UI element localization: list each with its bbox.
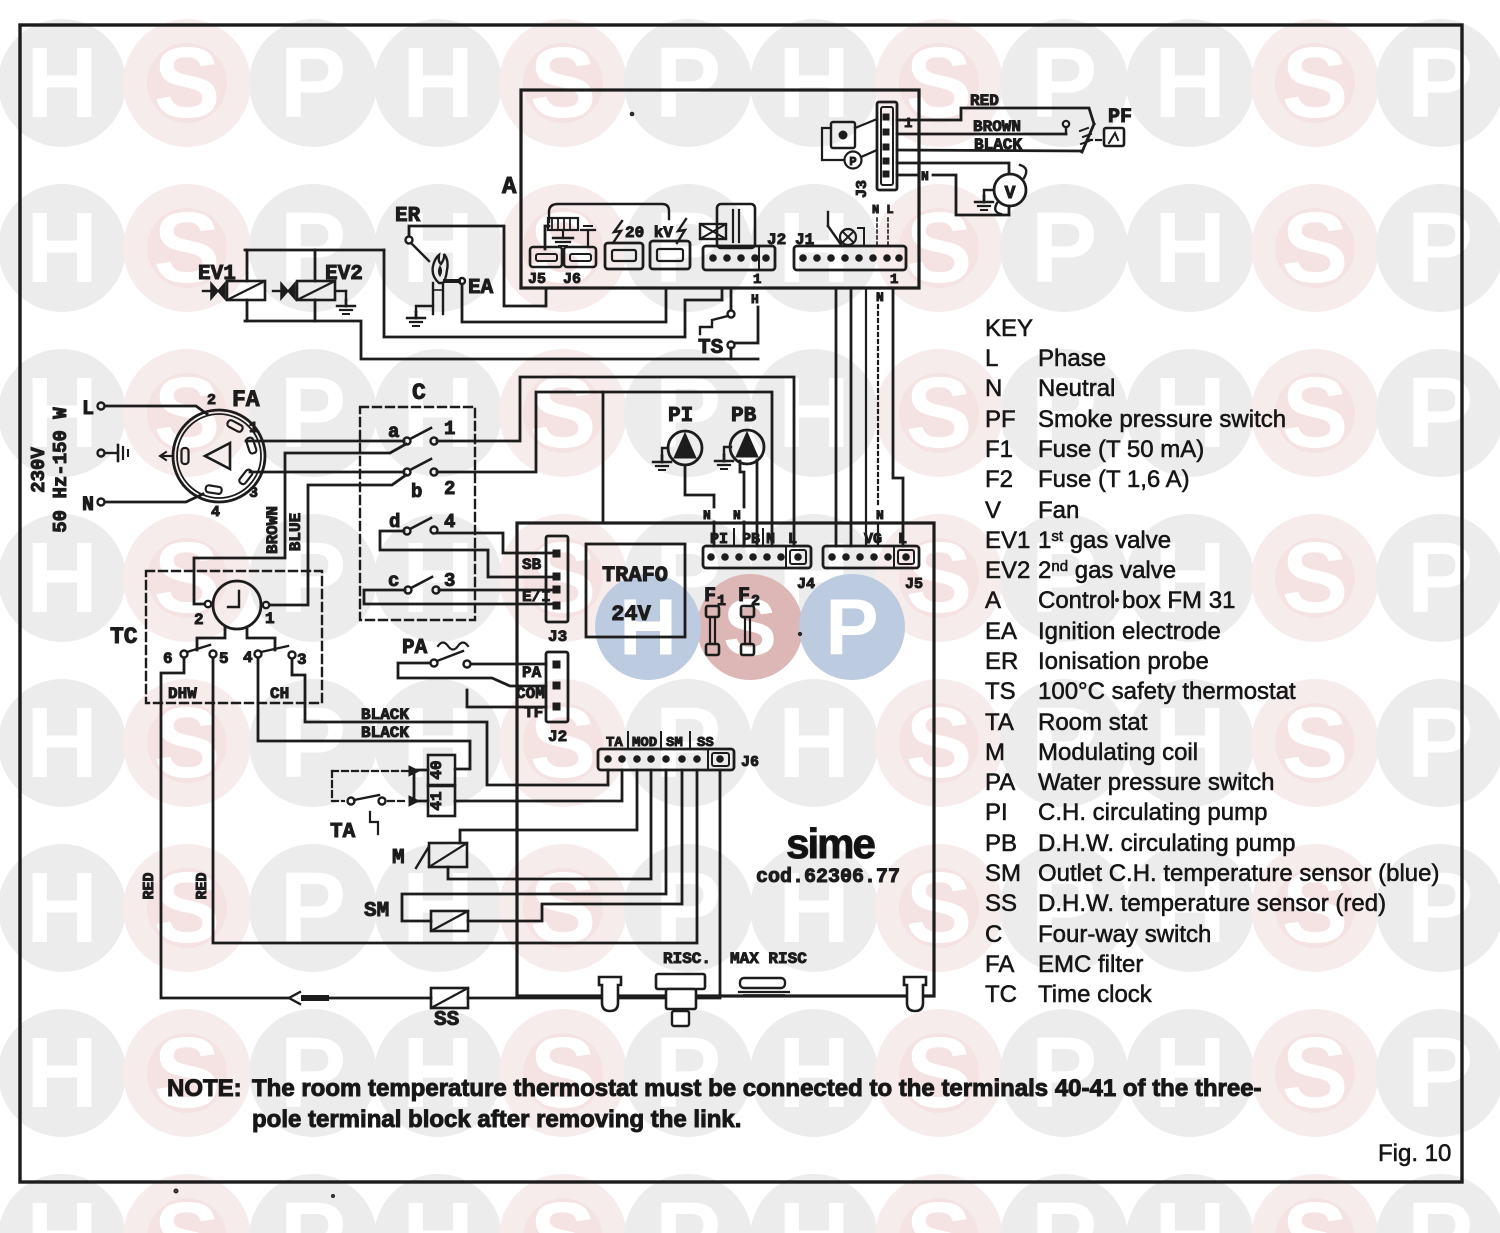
- wire PA common to COM: [398, 663, 546, 686]
- svg-text:BLACK: BLACK: [361, 706, 409, 724]
- svg-text:SS: SS: [985, 890, 1017, 917]
- svg-text:S: S: [154, 27, 221, 139]
- modulating coil M: [392, 843, 467, 870]
- svg-text:H: H: [778, 357, 850, 469]
- svg-text:TS: TS: [985, 678, 1016, 705]
- svg-text:6: 6: [163, 650, 173, 668]
- svg-text:S: S: [1282, 1017, 1349, 1129]
- svg-text:sime: sime: [786, 820, 874, 867]
- svg-text:4: 4: [211, 504, 220, 521]
- svg-text:S: S: [530, 357, 597, 469]
- svg-text:TC: TC: [110, 624, 138, 650]
- svg-text:20 kV: 20 kV: [625, 224, 673, 242]
- svg-text:PI: PI: [668, 405, 693, 428]
- svg-text:MAX RISC: MAX RISC: [730, 950, 807, 968]
- svg-text:V: V: [1005, 184, 1016, 204]
- wire RED 1 (TC6): [161, 658, 288, 998]
- svg-text:RED: RED: [194, 872, 211, 899]
- svg-text:EV1: EV1: [198, 263, 236, 286]
- svg-text:H: H: [778, 687, 850, 799]
- svg-text:J5: J5: [528, 271, 546, 288]
- wire contact 2 to J4 N: [437, 392, 772, 546]
- svg-text:RISC.: RISC.: [663, 950, 711, 968]
- svg-text:S: S: [906, 852, 973, 964]
- svg-text:S: S: [906, 687, 973, 799]
- svg-text:CH: CH: [270, 685, 289, 703]
- svg-text:S: S: [530, 852, 597, 964]
- svg-text:ER: ER: [985, 648, 1018, 675]
- svg-text:H: H: [1154, 27, 1226, 139]
- svg-text:PF: PF: [985, 406, 1016, 433]
- svg-text:J5: J5: [905, 576, 923, 593]
- svg-text:VG: VG: [864, 531, 882, 548]
- svg-text:50 Hz-150 W: 50 Hz-150 W: [50, 407, 72, 533]
- water pressure switch PA: [402, 637, 471, 668]
- svg-text:H: H: [402, 27, 474, 139]
- svg-text:TRAFO: TRAFO: [602, 563, 668, 588]
- svg-text:S: S: [1282, 522, 1349, 634]
- svg-text:pole terminal block after remo: pole terminal block after removing the l…: [252, 1106, 741, 1133]
- wire bus to J5 board: [835, 289, 838, 546]
- svg-text:H: H: [402, 852, 474, 964]
- fuse F2: [738, 585, 760, 655]
- svg-text:a: a: [388, 421, 399, 443]
- svg-text:2: 2: [751, 593, 760, 610]
- svg-text:F1: F1: [985, 436, 1013, 463]
- switch contact a/1: [388, 418, 455, 445]
- svg-text:C: C: [985, 921, 1002, 948]
- ionisation probe ER: [395, 205, 429, 261]
- relay above J1: [828, 212, 864, 246]
- wire TF: [467, 690, 546, 707]
- svg-text:L: L: [898, 531, 907, 548]
- wire BLACK to PF: [897, 150, 1082, 151]
- terminal ground: [98, 450, 105, 457]
- svg-text:H: H: [778, 1182, 850, 1233]
- svg-text:3: 3: [249, 485, 258, 502]
- switch contacts 6-5 4-3: [163, 645, 307, 669]
- svg-text:A: A: [985, 587, 1001, 614]
- svg-text:A: A: [502, 174, 517, 201]
- connector plug arrow: [289, 992, 300, 1004]
- svg-text:BROWN: BROWN: [973, 118, 1021, 136]
- svg-text:S: S: [1282, 1182, 1349, 1233]
- svg-text:Modulating coil: Modulating coil: [1038, 739, 1198, 766]
- wire 41 to connector: [455, 770, 622, 801]
- terminal block 41: [428, 785, 455, 816]
- room stat TA: [330, 766, 419, 844]
- wire BLACK 2 (TC4 to 41): [258, 658, 470, 769]
- fuse F1: [704, 585, 726, 655]
- wire TS top: [730, 289, 733, 310]
- svg-text:J4: J4: [797, 576, 815, 593]
- svg-text:Time clock: Time clock: [1038, 981, 1153, 1008]
- mounting foot left: [599, 977, 621, 1011]
- svg-text:D.H.W. temperature sensor (red: D.H.W. temperature sensor (red): [1038, 890, 1386, 917]
- svg-text:S: S: [154, 1182, 221, 1233]
- svg-text:P: P: [825, 583, 878, 672]
- svg-text:40: 40: [428, 760, 446, 779]
- wire stub to board top: [602, 392, 605, 523]
- svg-text:S: S: [154, 1017, 221, 1129]
- svg-text:BLACK: BLACK: [361, 724, 409, 742]
- svg-text:EA: EA: [985, 618, 1017, 645]
- svg-text:Control box FM 31: Control box FM 31: [1038, 587, 1235, 614]
- svg-text:J6: J6: [741, 754, 759, 771]
- svg-text:H: H: [619, 583, 677, 672]
- svg-text:P: P: [1031, 1182, 1098, 1233]
- svg-text:3: 3: [297, 651, 307, 669]
- svg-text:F: F: [738, 585, 750, 608]
- wire FA3 to contact b: [250, 471, 404, 474]
- svg-text:M: M: [392, 847, 405, 870]
- svg-text:N: N: [876, 290, 884, 305]
- svg-text:P: P: [280, 27, 347, 139]
- svg-text:Four-way switch: Four-way switch: [1038, 921, 1211, 948]
- svg-text:H: H: [402, 522, 474, 634]
- mounting foot right: [904, 977, 926, 1011]
- svg-text:N: N: [766, 531, 775, 548]
- svg-text:PB: PB: [731, 405, 757, 428]
- connector J6: [563, 226, 596, 288]
- svg-text:P: P: [280, 192, 347, 304]
- svg-text:H: H: [751, 292, 759, 307]
- svg-text:H: H: [402, 357, 474, 469]
- fan V: [994, 165, 1026, 214]
- wire RED to PF: [897, 108, 1094, 124]
- svg-text:N: N: [921, 169, 929, 184]
- ground (EA): [416, 306, 433, 312]
- svg-text:H: H: [26, 522, 98, 634]
- connector J3 (board): [522, 536, 568, 646]
- ground (PI): [662, 448, 668, 456]
- svg-text:RED: RED: [970, 92, 999, 110]
- switch contact d/4: [389, 511, 455, 535]
- svg-text:4: 4: [444, 511, 455, 533]
- svg-text:1: 1: [444, 418, 455, 440]
- svg-text:P: P: [655, 27, 722, 139]
- svg-text:Fan: Fan: [1038, 497, 1079, 524]
- svg-text:F: F: [704, 585, 716, 608]
- svg-text:Room stat: Room stat: [1038, 709, 1148, 736]
- op box: main PCB outline: [517, 523, 934, 996]
- svg-text:S: S: [1282, 357, 1349, 469]
- svg-text:C: C: [412, 380, 426, 406]
- wire RED 2 (TC5): [213, 658, 697, 943]
- svg-text:1: 1: [890, 272, 898, 288]
- svg-text:EV2: EV2: [985, 557, 1030, 584]
- svg-text:J2: J2: [767, 231, 786, 249]
- svg-text:Smoke pressure switch: Smoke pressure switch: [1038, 406, 1286, 433]
- svg-text:P: P: [280, 1182, 347, 1233]
- switch contact b/2: [404, 459, 456, 503]
- svg-text:DHW: DHW: [168, 685, 197, 703]
- svg-text:PI: PI: [985, 799, 1008, 826]
- svg-text:SB: SB: [522, 556, 542, 574]
- svg-text:N L: N L: [872, 203, 894, 217]
- svg-text:1: 1: [904, 116, 912, 132]
- svg-text:Fuse (T 50 mA): Fuse (T 50 mA): [1038, 436, 1204, 463]
- svg-text:COM: COM: [516, 685, 545, 703]
- connector J2 (box A): [703, 231, 786, 288]
- svg-text:S: S: [906, 1017, 973, 1129]
- svg-text:S: S: [530, 1182, 597, 1233]
- lightning bolt 2: [677, 219, 686, 243]
- svg-text:SM: SM: [666, 735, 683, 751]
- svg-text:V: V: [985, 497, 1001, 524]
- wire SM right: [468, 770, 682, 921]
- svg-text:41: 41: [428, 791, 446, 810]
- svg-text:230V: 230V: [28, 447, 50, 493]
- svg-text:TS: TS: [698, 337, 723, 360]
- svg-text:Fuse (T 1,6 A): Fuse (T 1,6 A): [1038, 466, 1190, 493]
- svg-text:BLACK: BLACK: [974, 136, 1022, 154]
- sensor SM: [364, 900, 468, 931]
- switch box C (dashed): [360, 407, 475, 620]
- wire SS chain: [468, 770, 720, 998]
- svg-text:D.H.W. circulating pump: D.H.W. circulating pump: [1038, 830, 1295, 857]
- svg-text:1: 1: [249, 420, 258, 437]
- svg-text:PA: PA: [522, 664, 542, 682]
- svg-text:TC: TC: [985, 981, 1017, 1008]
- svg-text:BROWN: BROWN: [264, 506, 282, 554]
- svg-text:H: H: [1154, 1182, 1226, 1233]
- wire PB pin: [756, 460, 759, 546]
- wire L bus: [893, 289, 903, 546]
- svg-text:C.H. circulating pump: C.H. circulating pump: [1038, 799, 1267, 826]
- svg-text:PF: PF: [1108, 106, 1132, 129]
- svg-text:H: H: [26, 192, 98, 304]
- ground (PB): [724, 447, 731, 455]
- svg-text:J6: J6: [563, 271, 581, 288]
- wire link 40-41: [414, 770, 428, 801]
- svg-text:S: S: [906, 357, 973, 469]
- svg-text:S: S: [906, 1182, 973, 1233]
- svg-text:L: L: [82, 398, 94, 421]
- svg-text:The room temperature thermosta: The room temperature thermostat must be …: [252, 1075, 1262, 1102]
- svg-text:2: 2: [194, 611, 204, 629]
- svg-text:EV1: EV1: [985, 527, 1030, 554]
- wire line A to box: [384, 250, 722, 337]
- wire contact d common: [380, 531, 553, 577]
- svg-text:E/I: E/I: [522, 588, 551, 606]
- wire TS bottom junction: [730, 348, 733, 359]
- svg-text:Fig. 10: Fig. 10: [1378, 1140, 1451, 1167]
- connector J1: [794, 231, 906, 288]
- terminal block 40: [428, 755, 455, 786]
- svg-text:TA: TA: [606, 735, 623, 751]
- svg-text:N: N: [876, 508, 884, 523]
- svg-text:BLUE: BLUE: [287, 513, 305, 551]
- connector J3 (box A): [854, 102, 912, 198]
- svg-text:FA: FA: [985, 951, 1014, 978]
- svg-text:SS: SS: [434, 1009, 459, 1032]
- ground (fan): [984, 190, 994, 196]
- svg-text:P: P: [280, 852, 347, 964]
- svg-text:H: H: [26, 27, 98, 139]
- svg-text:N: N: [985, 375, 1002, 402]
- wire PI to J4: [685, 465, 714, 507]
- svg-text:EMC filter: EMC filter: [1038, 951, 1143, 978]
- svg-text:Water pressure switch: Water pressure switch: [1038, 769, 1275, 796]
- pump PB: [730, 405, 764, 464]
- svg-text:S: S: [530, 27, 597, 139]
- svg-text:J3: J3: [854, 180, 871, 198]
- svg-text:TA: TA: [985, 709, 1014, 736]
- svg-text:PA: PA: [985, 769, 1015, 796]
- svg-text:H: H: [26, 1017, 98, 1129]
- gas valve EV1: [198, 263, 265, 300]
- svg-text:FA: FA: [232, 387, 260, 413]
- ignition electrode EA flame: [433, 254, 494, 314]
- svg-text:S: S: [1282, 192, 1349, 304]
- connector J5: [823, 546, 923, 593]
- svg-text:L: L: [985, 345, 998, 372]
- wire FA1 to contact a: [246, 440, 404, 443]
- spark connector 1: [605, 243, 643, 269]
- svg-text:N: N: [733, 508, 741, 523]
- gas valve EV2: [273, 263, 363, 314]
- svg-text:SS: SS: [697, 735, 714, 751]
- svg-text:S: S: [906, 27, 973, 139]
- wire BLACK 1 (TC3 to 40): [292, 659, 608, 785]
- connector J6 (TA MOD SM SS): [598, 749, 759, 771]
- wire clock legs: [197, 628, 225, 650]
- wire PB to J4: [740, 461, 744, 507]
- svg-text:H: H: [402, 1182, 474, 1233]
- svg-text:100°C safety thermostat: 100°C safety thermostat: [1038, 678, 1296, 705]
- transformer ignition coil: [545, 204, 669, 249]
- svg-text:H: H: [1154, 192, 1226, 304]
- svg-text:J2: J2: [548, 728, 567, 746]
- connector J4: [703, 546, 815, 593]
- switch contact c/3: [388, 570, 455, 594]
- svg-text:4: 4: [243, 649, 253, 667]
- svg-text:P: P: [655, 1182, 722, 1233]
- connector J5: [528, 247, 562, 288]
- svg-text:S: S: [1282, 27, 1349, 139]
- smoke pressure switch PF: [1080, 124, 1124, 152]
- svg-text:P: P: [1031, 192, 1098, 304]
- svg-text:N: N: [82, 494, 94, 517]
- svg-text:P: P: [1031, 1017, 1098, 1129]
- svg-text:J3: J3: [548, 628, 567, 646]
- wire contact c common: [364, 590, 553, 604]
- op box: control box A outline: [521, 90, 919, 288]
- svg-text:SM: SM: [985, 860, 1021, 887]
- wire EA to box: [462, 285, 666, 322]
- svg-text:F2: F2: [985, 466, 1013, 493]
- svg-text:NOTE:: NOTE:: [167, 1075, 242, 1102]
- wire M top: [460, 770, 637, 843]
- svg-text:SM: SM: [364, 900, 389, 923]
- wire contact 3 to E/I: [439, 589, 553, 592]
- wire BROWN to PF: [897, 133, 1066, 136]
- trimmer RISC: [656, 974, 705, 989]
- wire contact 1 to J4 L: [437, 377, 794, 546]
- EMC filter FA: [160, 387, 265, 521]
- connector J2 (board): [516, 652, 568, 746]
- wire fan neutral: [897, 174, 917, 177]
- svg-text:S: S: [154, 522, 221, 634]
- svg-text:P: P: [1407, 1182, 1474, 1233]
- svg-text:ER: ER: [395, 205, 421, 228]
- svg-text:M: M: [985, 739, 1005, 766]
- wire ER to box: [409, 226, 546, 306]
- svg-text:MOD: MOD: [632, 735, 657, 751]
- svg-text:H: H: [26, 1182, 98, 1233]
- wire PA to J2: [471, 663, 546, 666]
- svg-text:1: 1: [265, 610, 275, 628]
- relay DA icon: [831, 119, 877, 148]
- wire BLUE: [270, 475, 406, 605]
- time clock: [194, 581, 275, 629]
- wire fan feed: [897, 163, 1009, 174]
- lightning bolt 1: [613, 221, 622, 243]
- svg-text:L: L: [788, 531, 797, 548]
- transformer TRAFO 24V: [586, 544, 685, 637]
- svg-text:b: b: [411, 481, 422, 503]
- svg-text:J1: J1: [795, 231, 814, 249]
- svg-text:H: H: [26, 687, 98, 799]
- svg-text:Neutral: Neutral: [1038, 375, 1115, 402]
- svg-text:2: 2: [207, 392, 216, 409]
- svg-text:H: H: [26, 852, 98, 964]
- svg-text:PA: PA: [402, 637, 428, 660]
- svg-text:Outlet C.H. temperature sensor: Outlet C.H. temperature sensor (blue): [1038, 860, 1440, 887]
- svg-text:2: 2: [444, 478, 455, 500]
- svg-text:cod.62306.77: cod.62306.77: [756, 866, 900, 889]
- svg-text:PB: PB: [985, 830, 1017, 857]
- trimmer MAX RISC: [740, 978, 785, 988]
- wire EV bottom rail: [246, 300, 249, 321]
- wire BROWN: [194, 444, 406, 604]
- svg-text:H: H: [778, 1017, 850, 1129]
- svg-text:5: 5: [219, 650, 229, 668]
- wire contact 4 to SB: [437, 533, 553, 553]
- svg-text:S: S: [154, 852, 221, 964]
- pump PI: [668, 405, 702, 465]
- svg-text:Ionisation probe: Ionisation probe: [1038, 648, 1209, 675]
- relay above J2: [717, 204, 755, 248]
- svg-text:EA: EA: [468, 277, 494, 300]
- svg-text:N: N: [703, 508, 711, 523]
- svg-text:P: P: [849, 155, 856, 169]
- gas valve operator icon: [700, 224, 726, 239]
- sensor SS: [431, 988, 468, 1032]
- wire SM left: [402, 770, 666, 921]
- svg-text:RED: RED: [141, 872, 158, 899]
- wire M bottom: [448, 770, 651, 879]
- spark connector 2: [650, 241, 690, 269]
- svg-text:Phase: Phase: [1038, 345, 1106, 372]
- svg-text:KEY: KEY: [985, 315, 1033, 342]
- svg-text:24V: 24V: [611, 602, 651, 627]
- svg-text:Ignition electrode: Ignition electrode: [1038, 618, 1221, 645]
- time clock box TC (dashed): [146, 571, 322, 703]
- wire EV top rail: [245, 249, 384, 252]
- svg-text:H: H: [1154, 1017, 1226, 1129]
- svg-text:TA: TA: [330, 821, 356, 844]
- safety thermostat TS: [698, 311, 735, 361]
- pressure sensor P icon: [822, 128, 877, 169]
- svg-text:1: 1: [753, 272, 761, 288]
